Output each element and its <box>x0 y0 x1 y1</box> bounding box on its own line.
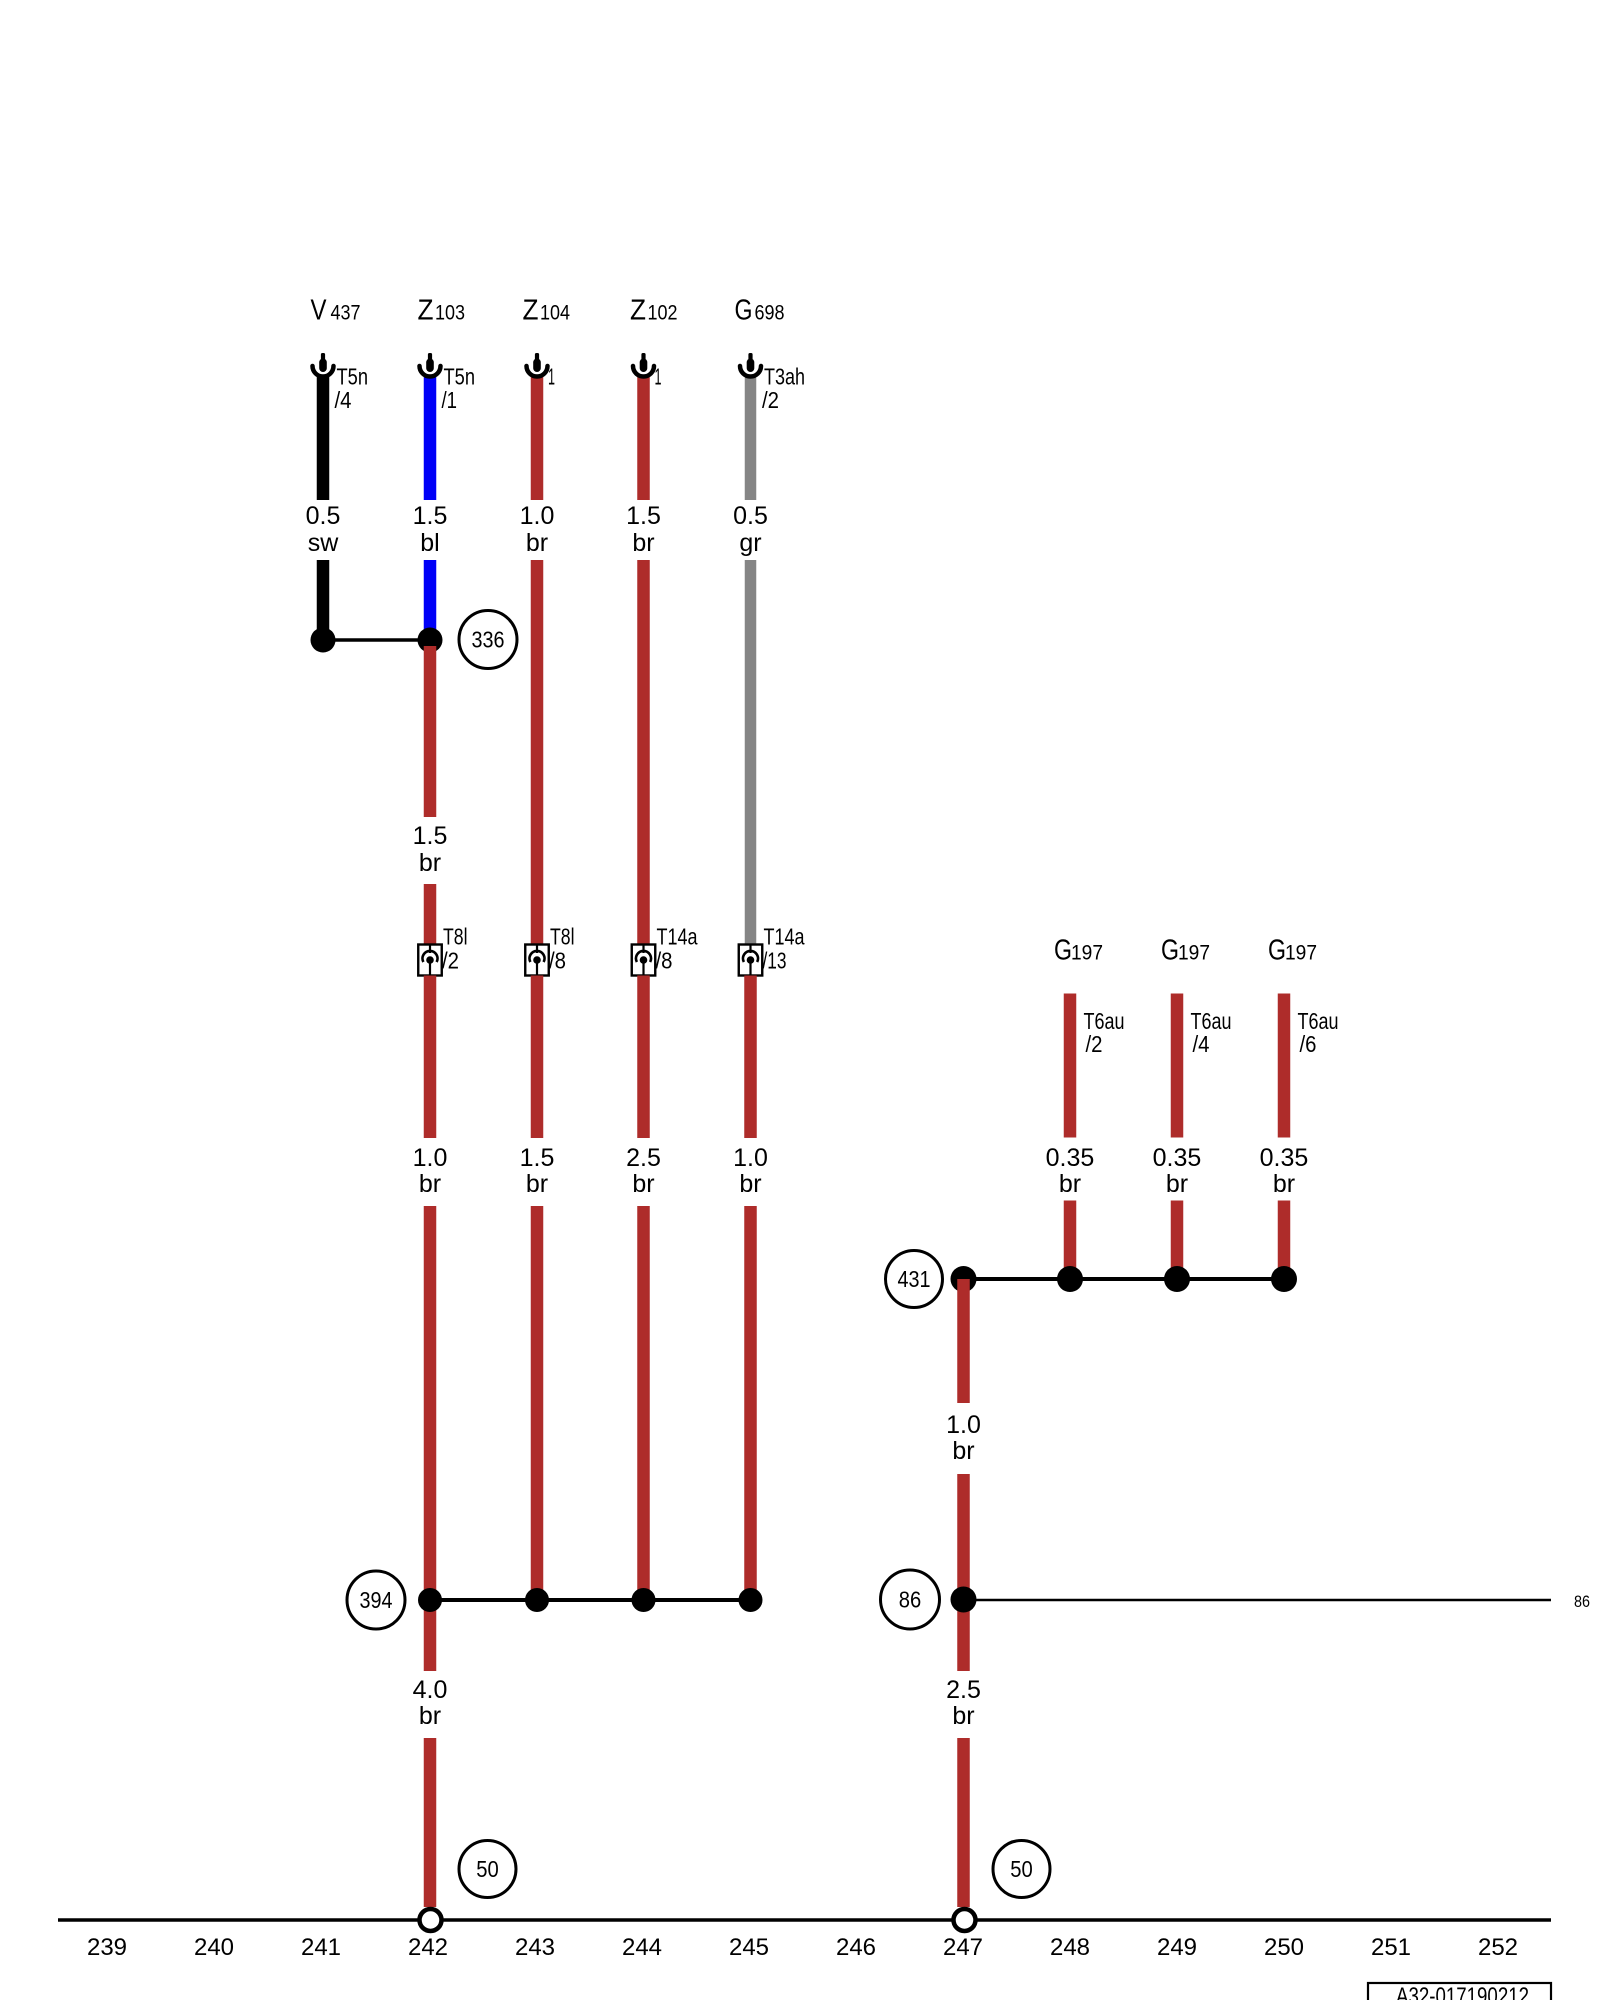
node 86 wire to right edge <box>964 1599 1552 1602</box>
node 336 junction wire <box>323 638 430 642</box>
node 431 label circle <box>886 1251 943 1308</box>
svg-text:247: 247 <box>943 1934 983 1961</box>
svg-text:197: 197 <box>1285 941 1317 965</box>
node 394 label circle <box>347 1571 405 1629</box>
svg-text:bl: bl <box>420 529 439 557</box>
wire 247 br to ground 50 <box>957 1738 970 1907</box>
svg-text:/2: /2 <box>1086 1031 1103 1057</box>
wire label 1.0 br <box>733 1144 768 1198</box>
svg-text:1.0: 1.0 <box>413 1144 448 1172</box>
svg-text:0.35: 0.35 <box>1046 1144 1095 1172</box>
wire Z104 br upper segment <box>531 377 544 500</box>
svg-text:br: br <box>632 529 654 557</box>
wire G197-2 br upper segment <box>1171 994 1184 1138</box>
svg-text:250: 250 <box>1264 1934 1304 1961</box>
svg-text:242: 242 <box>408 1934 448 1961</box>
wire Z103 br below node 336 <box>424 646 437 817</box>
connector terminal T3ah/2 on G698 <box>740 353 805 413</box>
wire G197-3 br upper segment <box>1278 994 1291 1138</box>
svg-text:86: 86 <box>899 1587 922 1613</box>
svg-text:/6: /6 <box>1300 1031 1317 1057</box>
svg-text:/4: /4 <box>1193 1031 1210 1057</box>
wire Z103 br below inline connector <box>424 976 437 1139</box>
wire G698 gr upper segment <box>745 377 757 500</box>
svg-text:Z: Z <box>523 295 539 327</box>
node 431 junction dot col248 <box>1057 1266 1083 1292</box>
wire Z104 br below inline connector <box>531 976 544 1139</box>
wire 247 2.5 br label <box>946 1676 981 1730</box>
inline connector T14a/8 <box>632 924 698 976</box>
wire label 1.5 br <box>626 502 661 557</box>
svg-text:86: 86 <box>1574 1592 1590 1611</box>
wire V437 sw lower segment <box>317 560 330 640</box>
svg-text:br: br <box>419 1170 441 1198</box>
wire label 0.35 br <box>1260 1144 1309 1198</box>
wire label 1.5 br <box>413 822 448 877</box>
svg-text:1: 1 <box>548 364 555 390</box>
connector terminal 1 on Z104 <box>527 353 556 390</box>
svg-text:T8l: T8l <box>550 924 575 950</box>
wire Z103 bl lower segment <box>424 560 437 636</box>
svg-text:br: br <box>952 1437 974 1465</box>
svg-text:T3ah: T3ah <box>764 364 805 390</box>
wire label 1.0 br <box>946 1411 981 1465</box>
svg-text:T14a: T14a <box>657 924 698 950</box>
wire G197-2 br to node 431 <box>1171 1201 1184 1280</box>
svg-text:245: 245 <box>729 1934 769 1961</box>
inline connector T14a/13 <box>739 924 805 976</box>
node 431 junction dot col249 <box>1164 1266 1190 1292</box>
wire label 1.0 br <box>520 502 555 557</box>
svg-text:1.5: 1.5 <box>413 502 448 530</box>
wire label 0.35 br <box>1153 1144 1202 1198</box>
node 50 label circle right <box>993 1841 1050 1898</box>
svg-text:br: br <box>1166 1170 1188 1198</box>
svg-text:244: 244 <box>622 1934 662 1961</box>
svg-text:br: br <box>632 1170 654 1198</box>
svg-text:/1: /1 <box>442 387 458 413</box>
svg-text:2.5: 2.5 <box>946 1676 981 1704</box>
svg-text:br: br <box>526 529 548 557</box>
svg-text:/4: /4 <box>335 387 352 413</box>
svg-text:336: 336 <box>472 627 505 653</box>
wire G698 br to node 394 <box>744 1206 757 1600</box>
node 336 junction dot right <box>418 628 443 653</box>
svg-text:br: br <box>419 1702 441 1730</box>
svg-text:1.0: 1.0 <box>733 1144 768 1172</box>
svg-text:248: 248 <box>1050 1934 1090 1961</box>
svg-text:br: br <box>952 1702 974 1730</box>
wire G197-3 br to node 431 <box>1278 1201 1291 1280</box>
ground terminal right <box>954 1909 976 1931</box>
wire Z103 br above inline connector <box>424 884 437 945</box>
svg-text:431: 431 <box>898 1266 931 1292</box>
terminal label T6au/4 <box>1191 1008 1232 1057</box>
svg-text:246: 246 <box>836 1934 876 1961</box>
wire G698 br below inline connector <box>744 976 757 1139</box>
wire Z102 br to node 394 <box>637 1206 650 1600</box>
svg-text:0.35: 0.35 <box>1153 1144 1202 1172</box>
wire Z102 br mid segment <box>637 560 650 945</box>
svg-text:103: 103 <box>435 301 465 325</box>
wire Z103 br to node 394 <box>424 1206 437 1671</box>
terminal label T6au/6 <box>1298 1008 1339 1057</box>
svg-text:197: 197 <box>1071 941 1103 965</box>
svg-text:0.35: 0.35 <box>1260 1144 1309 1172</box>
wire Z103 bl upper segment <box>424 377 437 500</box>
node 394 junction wire <box>430 1598 751 1602</box>
terminal label T6au/2 <box>1084 1008 1125 1057</box>
svg-text:br: br <box>739 1170 761 1198</box>
svg-text:T5n: T5n <box>337 364 369 390</box>
svg-text:243: 243 <box>515 1934 555 1961</box>
svg-text:T5n: T5n <box>444 364 476 390</box>
svg-text:437: 437 <box>331 301 361 325</box>
svg-text:239: 239 <box>87 1934 127 1961</box>
svg-text:50: 50 <box>1010 1856 1033 1882</box>
wire label 1.5 bl <box>413 502 448 557</box>
svg-text:br: br <box>526 1170 548 1198</box>
node 336 junction dot left <box>311 628 336 653</box>
node 86 junction dot <box>951 1587 977 1613</box>
wire label 0.5 sw <box>306 502 341 557</box>
inline connector T8l/8 <box>525 924 574 976</box>
svg-text:104: 104 <box>540 301 570 325</box>
svg-text:1.5: 1.5 <box>626 502 661 530</box>
svg-text:gr: gr <box>739 529 761 557</box>
node 394 junction dot col244 <box>632 1588 656 1612</box>
wire 247 br below node 431 <box>957 1279 970 1403</box>
wire V437 sw upper segment <box>317 377 330 500</box>
connector terminal T5n/4 on V437 <box>313 353 369 413</box>
wire Z102 br below inline connector <box>637 976 650 1139</box>
node 394 junction dot col242 <box>418 1588 442 1612</box>
wire G698 gr mid segment <box>745 560 757 945</box>
svg-text:1.5: 1.5 <box>520 1144 555 1172</box>
svg-text:197: 197 <box>1178 941 1210 965</box>
svg-text:252: 252 <box>1478 1934 1518 1961</box>
diagram number box A32-017190212 <box>1368 1983 1551 2000</box>
svg-text:br: br <box>1059 1170 1081 1198</box>
svg-text:/2: /2 <box>762 387 779 413</box>
svg-text:T14a: T14a <box>764 924 805 950</box>
wire label 1.0 br <box>413 1144 448 1198</box>
svg-text:1.0: 1.0 <box>520 502 555 530</box>
svg-text:0.5: 0.5 <box>733 502 768 530</box>
svg-text:G: G <box>735 295 753 327</box>
svg-text:/8: /8 <box>656 948 673 974</box>
node 394 junction dot col245 <box>739 1588 763 1612</box>
wire Z104 br mid segment <box>531 560 544 945</box>
node 336 label circle <box>459 611 517 669</box>
wire Z103 4.0 br label <box>413 1676 448 1730</box>
wire Z102 br upper segment <box>637 377 650 500</box>
wire Z104 br to node 394 <box>531 1206 544 1600</box>
ground rail <box>58 1918 1551 1922</box>
svg-text:0.5: 0.5 <box>306 502 341 530</box>
svg-text:G: G <box>1268 935 1286 967</box>
svg-text:br: br <box>1273 1170 1295 1198</box>
svg-text:241: 241 <box>301 1934 341 1961</box>
svg-text:240: 240 <box>194 1934 234 1961</box>
svg-text:394: 394 <box>360 1587 393 1613</box>
node 431 junction dot col250 <box>1271 1266 1297 1292</box>
node 431 junction dot col247 <box>951 1266 977 1292</box>
svg-text:/13: /13 <box>763 948 787 974</box>
wire G197-1 br to node 431 <box>1064 1201 1077 1280</box>
node 431 junction wire <box>964 1277 1285 1281</box>
wire label 1.5 br <box>520 1144 555 1198</box>
svg-text:sw: sw <box>308 529 340 557</box>
svg-text:G: G <box>1054 935 1072 967</box>
node 394 junction dot col243 <box>525 1588 549 1612</box>
node 50 label circle left <box>459 1841 516 1898</box>
svg-text:T8l: T8l <box>443 924 468 950</box>
svg-text:1.5: 1.5 <box>413 822 448 850</box>
wire G197-1 br upper segment <box>1064 994 1077 1138</box>
svg-text:Z: Z <box>630 295 646 327</box>
wire 247 br to node 86 <box>957 1474 970 1671</box>
svg-text:4.0: 4.0 <box>413 1676 448 1704</box>
wire label 2.5 br <box>626 1144 661 1198</box>
inline connector T8l/2 <box>418 924 467 976</box>
svg-text:2.5: 2.5 <box>626 1144 661 1172</box>
connector terminal T5n/1 on Z103 <box>420 353 476 413</box>
wire label 0.35 br <box>1046 1144 1095 1198</box>
svg-text:249: 249 <box>1157 1934 1197 1961</box>
svg-text:1: 1 <box>655 364 662 390</box>
svg-text:/2: /2 <box>442 948 459 974</box>
svg-text:251: 251 <box>1371 1934 1411 1961</box>
node 86 label circle <box>881 1570 940 1629</box>
wire Z103 br to ground 50 <box>424 1738 437 1907</box>
ground terminal left <box>420 1909 442 1931</box>
svg-text:50: 50 <box>476 1856 499 1882</box>
svg-text:/8: /8 <box>549 948 566 974</box>
svg-text:br: br <box>419 849 441 877</box>
svg-text:G: G <box>1161 935 1179 967</box>
svg-text:Z: Z <box>418 295 434 327</box>
svg-text:102: 102 <box>648 301 678 325</box>
connector terminal 1 on Z102 <box>633 353 662 390</box>
svg-text:A32-017190212: A32-017190212 <box>1396 1983 1529 2000</box>
svg-text:V: V <box>311 295 328 327</box>
svg-text:1.0: 1.0 <box>946 1411 981 1439</box>
svg-text:698: 698 <box>755 301 785 325</box>
wire label 0.5 gr <box>733 502 768 557</box>
